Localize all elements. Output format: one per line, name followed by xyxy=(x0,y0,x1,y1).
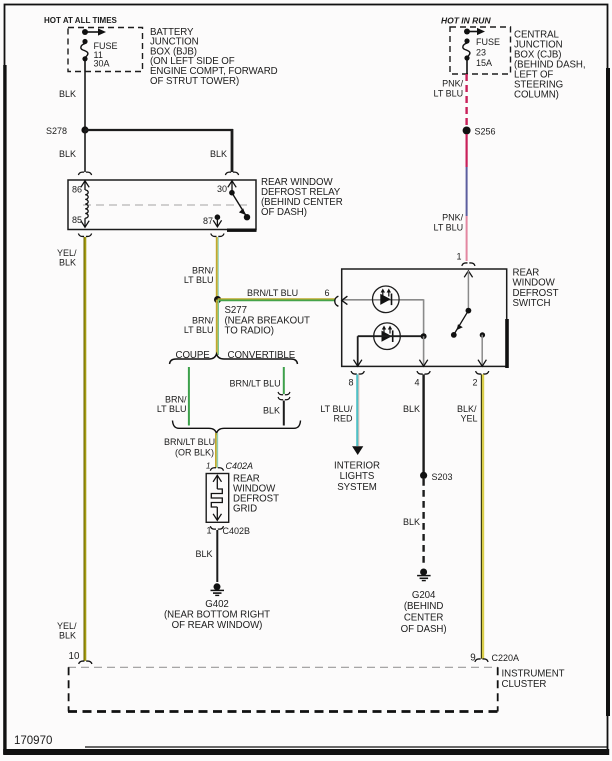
svg-text:BRN/: BRN/ xyxy=(192,315,214,325)
label BRN/LT BLU left of S277 xyxy=(184,315,214,335)
svg-text:LT BLU/: LT BLU/ xyxy=(320,404,353,414)
svg-text:9: 9 xyxy=(470,653,475,664)
svg-text:BLK: BLK xyxy=(403,404,420,414)
label BLK xyxy=(263,406,280,416)
svg-text:30: 30 xyxy=(217,184,227,194)
svg-text:GRID: GRID xyxy=(233,504,257,515)
svg-text:LT BLU: LT BLU xyxy=(184,275,214,285)
svg-text:LT BLU: LT BLU xyxy=(157,404,187,414)
label G402 xyxy=(164,599,270,631)
connector arc below pin 4 xyxy=(417,371,430,374)
label HOT IN RUN xyxy=(441,16,491,26)
label CENTRAL JUNCTION BOX (CJB) xyxy=(514,30,585,101)
svg-text:HOT IN RUN: HOT IN RUN xyxy=(441,16,491,26)
relay pin label 87 xyxy=(203,216,213,226)
label INTERIOR LIGHTS SYSTEM xyxy=(334,460,380,493)
label BATTERY JUNCTION BOX (BJB) xyxy=(150,27,278,87)
svg-text:YEL/: YEL/ xyxy=(57,248,77,258)
svg-text:BLK: BLK xyxy=(59,89,76,99)
svg-text:OF DASH): OF DASH) xyxy=(261,207,307,218)
wire BRN/LT BLU convertible branch xyxy=(283,367,285,394)
rear window defrost relay box xyxy=(68,180,257,232)
svg-text:BRN/: BRN/ xyxy=(192,266,214,276)
svg-text:BRN/: BRN/ xyxy=(165,395,187,405)
wire LT BLU/RED pin 8 to interior lights xyxy=(352,374,363,455)
svg-text:C402A: C402A xyxy=(226,461,254,471)
pin 8 drop xyxy=(354,336,362,366)
relay coil pin 86 to 85 xyxy=(81,181,89,227)
svg-text:LIGHTS: LIGHTS xyxy=(340,471,375,482)
fuse label FUSE 23 15A xyxy=(476,37,500,68)
connector pin 10 xyxy=(69,651,92,664)
label BLK xyxy=(403,517,420,527)
switch pin label 8 xyxy=(349,378,354,388)
grid element (heater resistor) xyxy=(211,475,222,520)
ground G402 xyxy=(211,583,225,595)
svg-text:1: 1 xyxy=(206,462,210,471)
connector C402B xyxy=(207,526,251,536)
ground G204 xyxy=(417,569,431,581)
svg-text:(OR BLK): (OR BLK) xyxy=(175,448,214,458)
svg-text:(NEAR BOTTOM RIGHT: (NEAR BOTTOM RIGHT xyxy=(164,610,270,621)
svg-text:COLUMN): COLUMN) xyxy=(514,90,559,101)
svg-text:2: 2 xyxy=(473,378,478,388)
node: fuse feed dot with arrow xyxy=(464,28,485,35)
svg-text:BLK: BLK xyxy=(196,549,213,559)
rear window defrost switch box xyxy=(342,269,509,368)
wire BRN/LT BLU S277 down to split xyxy=(217,300,219,355)
svg-text:RED: RED xyxy=(333,414,353,424)
label BRN/LT BLU above S277 xyxy=(184,266,214,286)
label LT BLU/RED xyxy=(320,404,353,424)
wire BRN/LT BLU relay 87 to S277 xyxy=(217,237,219,300)
svg-text:INTERIOR: INTERIOR xyxy=(334,460,380,471)
pin 4 drop xyxy=(419,336,427,366)
label BLK xyxy=(59,149,76,159)
svg-text:SWITCH: SWITCH xyxy=(513,298,551,309)
connector arc below pin 2 xyxy=(476,371,489,374)
svg-text:BLK/: BLK/ xyxy=(457,404,477,414)
label BLK xyxy=(210,149,227,159)
label REAR WINDOW DEFROST GRID xyxy=(233,474,279,515)
fuse F23 15A xyxy=(463,38,470,74)
wire YEL/BLK relay 85 to instrument cluster pin 10 xyxy=(84,237,85,661)
svg-text:BLK: BLK xyxy=(59,631,76,641)
svg-text:BRN/LT BLU: BRN/LT BLU xyxy=(247,288,298,298)
wire BLK S278 to relay pin 30 xyxy=(85,129,233,172)
svg-text:S203: S203 xyxy=(432,472,453,482)
switch contact to pin 2 xyxy=(478,332,486,366)
label BLK xyxy=(403,404,420,414)
svg-text:SYSTEM: SYSTEM xyxy=(337,482,377,493)
svg-text:15A: 15A xyxy=(476,58,492,68)
node S277 xyxy=(214,296,310,337)
svg-text:C402B: C402B xyxy=(223,526,251,536)
connector arc at switch pin 1 xyxy=(462,263,475,266)
merge brace xyxy=(173,421,301,434)
svg-text:TO RADIO): TO RADIO) xyxy=(225,326,274,337)
node S203 xyxy=(420,472,453,482)
wire BLK pin 4 to S203 xyxy=(422,374,424,472)
svg-text:CENTER: CENTER xyxy=(404,613,444,624)
connector C402A xyxy=(206,461,253,471)
connector arc below pin 8 xyxy=(351,371,364,374)
svg-text:G204: G204 xyxy=(412,590,436,601)
svg-text:C220A: C220A xyxy=(492,653,520,663)
label BRN/LT BLU (OR BLK) xyxy=(164,437,215,458)
LED indicator 2 xyxy=(374,323,401,350)
connector arc below relay pin 87 xyxy=(211,234,224,237)
LED indicator 1 xyxy=(373,286,400,313)
svg-text:87: 87 xyxy=(203,216,213,226)
svg-text:BRN/LT BLU: BRN/LT BLU xyxy=(164,437,215,447)
label INSTRUMENT CLUSTER xyxy=(502,669,565,690)
svg-text:S256: S256 xyxy=(475,127,496,137)
svg-text:(BEHIND: (BEHIND xyxy=(404,601,444,612)
svg-text:LT BLU: LT BLU xyxy=(184,325,214,335)
svg-text:86: 86 xyxy=(72,185,82,195)
connector pin 9 C220A xyxy=(470,653,519,664)
switch pin label 1 xyxy=(457,252,462,262)
switch pin label 6 xyxy=(325,288,330,298)
switch pin label 2 xyxy=(473,378,478,388)
label BLK xyxy=(59,89,76,99)
connector arc below relay pin 85 xyxy=(78,234,91,237)
label BLK/YEL xyxy=(457,404,478,424)
inline connector on convertible branch xyxy=(278,392,290,400)
svg-text:4: 4 xyxy=(415,378,420,388)
svg-text:OF STRUT TOWER): OF STRUT TOWER) xyxy=(150,76,239,87)
wire PNK/LT BLU dashed CJB to S256 xyxy=(465,74,467,127)
svg-text:30A: 30A xyxy=(94,59,110,69)
wire BLK/YEL pin 2 to instrument cluster pin 9 xyxy=(481,374,483,658)
label BRN/LT BLU coupe xyxy=(157,395,187,415)
central junction box CJB (dashed box) xyxy=(450,27,511,74)
label BRN/LT BLU horizontal xyxy=(247,288,298,298)
wire BLK S278 to relay pin 86 xyxy=(84,130,86,172)
svg-text:YEL/: YEL/ xyxy=(57,621,77,631)
label G204 xyxy=(401,590,447,635)
relay pin label 30 xyxy=(217,184,227,194)
svg-text:OF REAR WINDOW): OF REAR WINDOW) xyxy=(172,620,263,631)
label REAR WINDOW DEFROST SWITCH xyxy=(513,267,559,309)
svg-text:BLK: BLK xyxy=(210,149,227,159)
svg-text:1: 1 xyxy=(457,252,462,262)
svg-text:BLK: BLK xyxy=(59,149,76,159)
fuse F11 30A xyxy=(81,39,88,72)
svg-text:S277: S277 xyxy=(225,305,247,316)
label PNK/LT BLU lower xyxy=(434,213,464,233)
relay pin label 85 xyxy=(72,215,82,225)
svg-text:G402: G402 xyxy=(205,599,229,610)
node: fuse feed dot with arrow xyxy=(82,28,106,35)
node S278 xyxy=(46,126,89,136)
switch arm from pin 1 xyxy=(451,271,473,338)
wire BLK grid to G402 xyxy=(216,530,218,582)
svg-text:BLK: BLK xyxy=(403,517,420,527)
svg-text:LT BLU: LT BLU xyxy=(434,222,464,232)
relay pin 87 xyxy=(213,214,221,226)
instrument cluster box xyxy=(68,667,498,711)
label BLK xyxy=(196,549,213,559)
split brace coupe/convertible xyxy=(170,354,298,364)
label PNK/LT BLU upper xyxy=(434,79,464,99)
svg-text:10: 10 xyxy=(69,651,80,662)
label YEL/BLK lower xyxy=(57,621,77,641)
sheet number 170970 xyxy=(14,735,52,747)
svg-text:FUSE: FUSE xyxy=(476,37,500,47)
wire BLK dashed S203 to G204 xyxy=(422,479,424,566)
relay switch contact pin 30 xyxy=(228,181,250,221)
wire PNK/LT BLU S256 to switch pin 1 xyxy=(466,134,468,261)
label YEL/BLK upper xyxy=(57,248,77,268)
svg-text:LT BLU: LT BLU xyxy=(434,88,464,98)
svg-text:1: 1 xyxy=(207,526,212,536)
battery junction box BJB (dashed box) xyxy=(68,28,143,72)
svg-text:23: 23 xyxy=(476,47,486,57)
label REAR WINDOW DEFROST RELAY xyxy=(261,177,343,218)
wire BLK fuse to S278 xyxy=(84,72,86,131)
wire LED1 to junction xyxy=(423,299,425,336)
label BRN/LT BLU convertible xyxy=(230,379,281,389)
svg-text:BLK: BLK xyxy=(59,258,76,268)
wire BRN/LT BLU S277 to switch pin 6 xyxy=(218,299,335,301)
svg-text:8: 8 xyxy=(349,378,354,388)
wire BRN/LT BLU (OR BLK) to C402A xyxy=(216,433,218,468)
connector arc at relay pin 30 xyxy=(225,172,238,175)
label HOT AT ALL TIMES xyxy=(44,16,118,25)
svg-text:PNK/: PNK/ xyxy=(442,79,464,89)
svg-text:BLK: BLK xyxy=(263,406,280,416)
svg-text:170970: 170970 xyxy=(14,735,52,747)
relay pin label 86 xyxy=(72,185,82,195)
svg-text:HOT AT ALL TIMES: HOT AT ALL TIMES xyxy=(44,16,118,25)
svg-text:(NEAR BREAKOUT: (NEAR BREAKOUT xyxy=(225,315,311,326)
wire BRN/LT BLU coupe branch xyxy=(188,367,190,426)
label CONVERTIBLE xyxy=(228,350,296,361)
svg-text:YEL: YEL xyxy=(460,414,477,424)
node S256 xyxy=(463,127,496,137)
svg-text:CLUSTER: CLUSTER xyxy=(502,679,547,690)
svg-text:S278: S278 xyxy=(46,126,67,136)
connector arc at relay pin 86 xyxy=(78,172,91,175)
svg-text:85: 85 xyxy=(72,215,82,225)
svg-text:BRN/LT BLU: BRN/LT BLU xyxy=(230,379,281,389)
connector arc at pin 6 xyxy=(335,296,339,306)
svg-text:OF DASH): OF DASH) xyxy=(401,624,447,635)
pin 6 line with exit arrow xyxy=(342,296,424,304)
rear window defrost grid box xyxy=(206,474,229,523)
wire BLK convertible branch xyxy=(283,401,285,426)
svg-text:6: 6 xyxy=(325,288,330,298)
svg-text:PNK/: PNK/ xyxy=(442,213,464,223)
LED2 wire to junction dot xyxy=(358,333,427,339)
switch pin label 4 xyxy=(415,378,420,388)
fuse label FUSE 11 30A xyxy=(94,41,118,68)
label COUPE xyxy=(176,350,211,361)
relay internal dashed line xyxy=(83,204,248,206)
